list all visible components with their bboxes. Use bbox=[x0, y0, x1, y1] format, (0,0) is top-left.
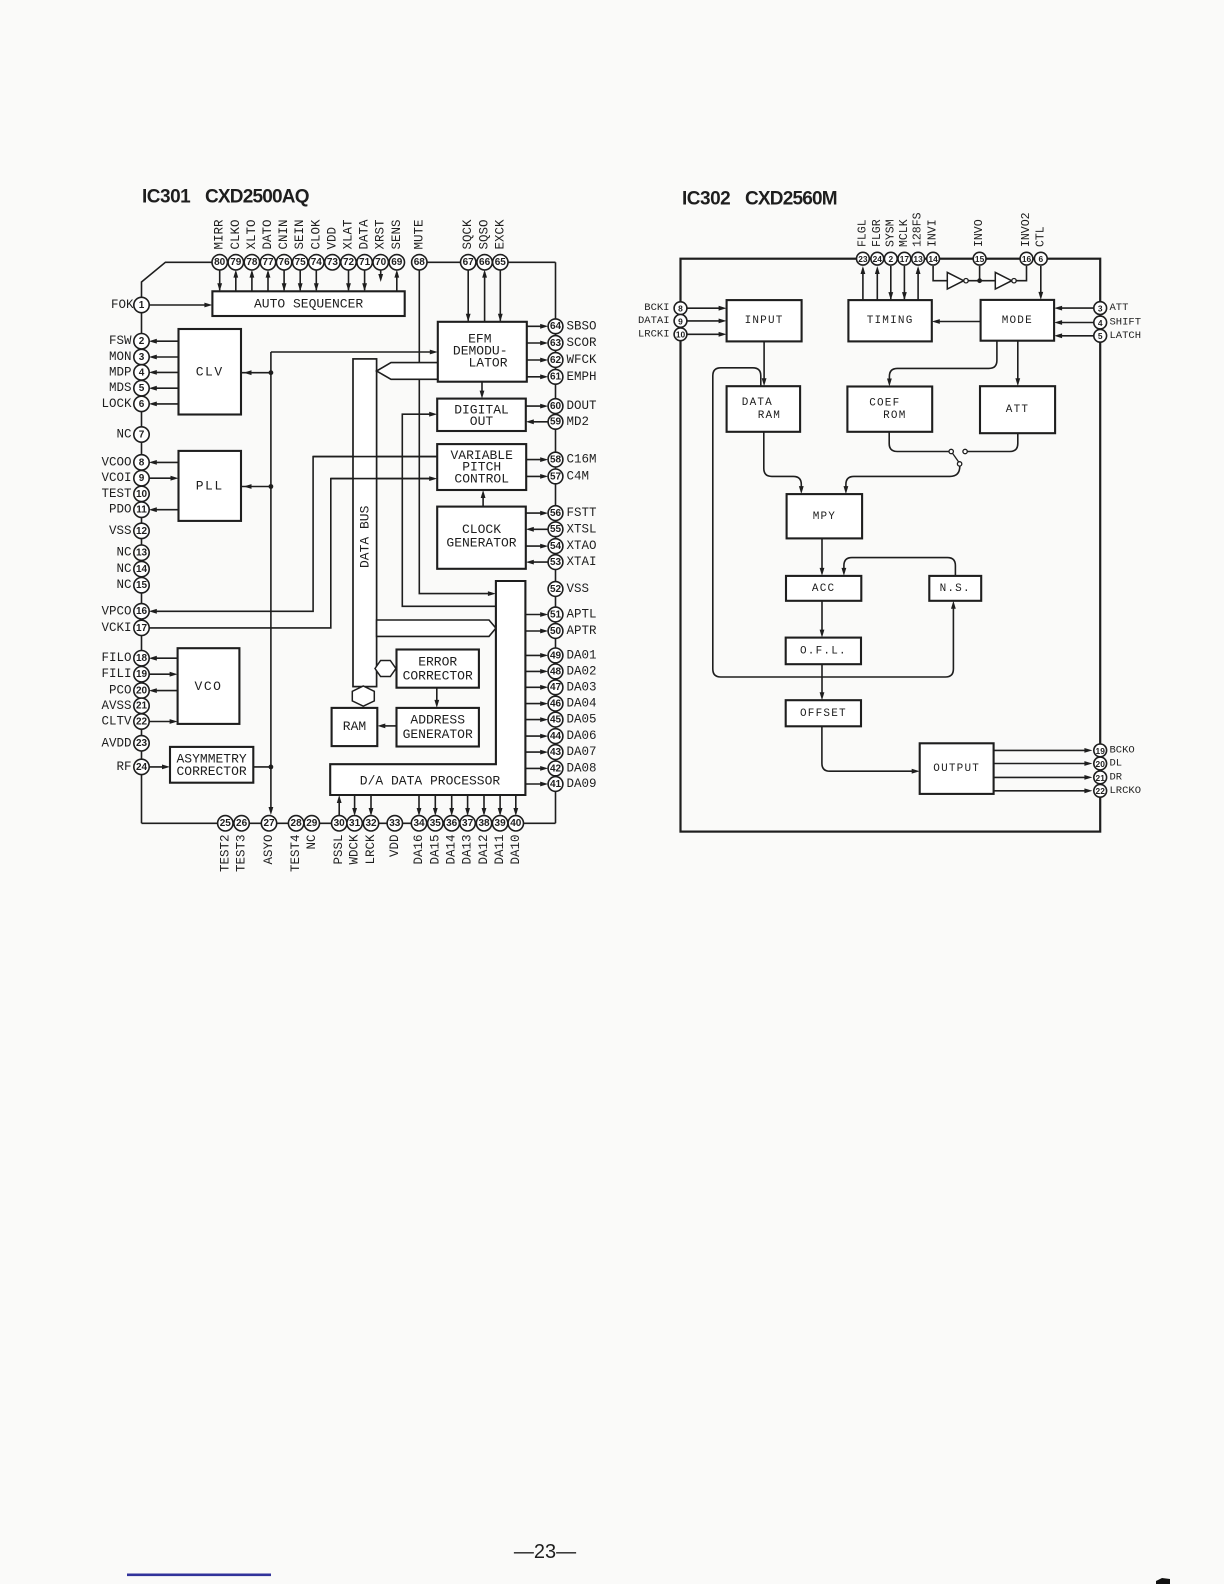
svg-text:CNIN: CNIN bbox=[277, 219, 291, 249]
pin 78 XLTO bbox=[244, 219, 259, 270]
block AUTO SEQUENCER bbox=[212, 291, 404, 316]
svg-text:FOK: FOK bbox=[111, 298, 134, 312]
pin 46 DA04 bbox=[548, 696, 596, 711]
wire output to pin 56 bbox=[526, 512, 544, 514]
svg-text:48: 48 bbox=[550, 666, 562, 677]
svg-text:74: 74 bbox=[311, 257, 323, 268]
pin 43 DA07 bbox=[548, 745, 596, 760]
svg-text:O.F.L.: O.F.L. bbox=[800, 645, 847, 657]
svg-text:MCLK: MCLK bbox=[898, 219, 911, 247]
svg-text:VSS: VSS bbox=[109, 524, 132, 538]
svg-text:MUTE: MUTE bbox=[412, 219, 426, 249]
pin 7 NC bbox=[116, 427, 149, 442]
svg-text:61: 61 bbox=[550, 372, 562, 383]
pin 22 LRCKO bbox=[1094, 784, 1141, 797]
wire pin80 to pin1 rail (top-left) bbox=[142, 262, 214, 300]
pin 5 LATCH bbox=[1094, 329, 1141, 342]
svg-text:XTAO: XTAO bbox=[567, 539, 597, 553]
svg-text:DATA: DATA bbox=[358, 219, 372, 250]
pin 56 FSTT bbox=[548, 506, 597, 521]
wire output to pin 41 bbox=[525, 783, 544, 785]
wire EFM demodulator to pin 66 bbox=[484, 272, 486, 322]
wire inverter U2 to pin 16 INVO2 bbox=[1016, 266, 1026, 281]
svg-text:ATT: ATT bbox=[1006, 404, 1029, 416]
pin 16 INVO2 bbox=[1020, 212, 1033, 265]
wire D/A data processor to bottom pin bbox=[418, 795, 420, 813]
wire D/A data processor to bottom pin bbox=[370, 795, 372, 813]
svg-text:8: 8 bbox=[139, 457, 145, 468]
svg-text:23: 23 bbox=[136, 738, 148, 749]
bus arrow EFM demodulator to DATA BUS bbox=[377, 363, 438, 380]
wire inverter U1 to inverter U2 bbox=[968, 280, 995, 282]
wire pin 53 input to block bbox=[530, 561, 548, 563]
wire pin 74 into AUTO SEQUENCER bbox=[315, 270, 317, 291]
wire output to pin 48 bbox=[525, 670, 544, 672]
svg-text:WFCK: WFCK bbox=[567, 353, 598, 367]
svg-text:28: 28 bbox=[291, 818, 303, 829]
wire CLOCK GENERATOR to VARIABLE PITCH CONTROL bbox=[482, 494, 484, 506]
svg-text:73: 73 bbox=[327, 257, 339, 268]
svg-text:MON: MON bbox=[109, 350, 132, 364]
wire output to pin 62 bbox=[527, 359, 544, 361]
wire ADDRESS GENERATOR to RAM bbox=[382, 725, 397, 727]
svg-text:FSTT: FSTT bbox=[567, 506, 598, 520]
block TIMING bbox=[848, 300, 931, 341]
svg-text:INVO2: INVO2 bbox=[1020, 212, 1033, 247]
svg-text:19: 19 bbox=[1096, 746, 1106, 756]
wire pin68 to pin67 bbox=[427, 261, 461, 263]
wire left pin into INPUT bbox=[687, 320, 722, 322]
svg-text:8: 8 bbox=[678, 304, 683, 314]
wire switch to MPY bbox=[846, 466, 960, 490]
pin 25 TEST2 bbox=[218, 816, 233, 872]
svg-text:ACC: ACC bbox=[812, 583, 835, 595]
wire output to pin 57 bbox=[526, 475, 544, 477]
svg-text:PLL: PLL bbox=[196, 479, 224, 494]
wire right pin into MODE bbox=[1059, 322, 1094, 324]
svg-text:21: 21 bbox=[136, 701, 148, 712]
svg-text:EXCK: EXCK bbox=[493, 219, 507, 250]
IC302 chip border bbox=[681, 259, 1101, 832]
svg-text:CONTROL: CONTROL bbox=[454, 472, 509, 487]
pin 37 DA13 bbox=[460, 816, 475, 865]
svg-text:LOCK: LOCK bbox=[101, 397, 132, 411]
pin 49 DA01 bbox=[548, 648, 596, 663]
pin 22 CLTV bbox=[101, 714, 149, 729]
pin 17 MCLK bbox=[898, 219, 911, 265]
wire D/A data processor to bottom pin bbox=[499, 795, 501, 813]
svg-text:7: 7 bbox=[139, 429, 145, 440]
svg-text:IC301: IC301 bbox=[142, 187, 191, 208]
pin 14 NC bbox=[116, 561, 149, 576]
svg-text:44: 44 bbox=[550, 731, 562, 742]
svg-text:APTR: APTR bbox=[567, 624, 598, 638]
wire OUTPUT to right pin bbox=[994, 763, 1089, 765]
svg-text:13: 13 bbox=[136, 548, 148, 559]
svg-text:INVI: INVI bbox=[927, 219, 940, 247]
svg-text:35: 35 bbox=[430, 818, 442, 829]
svg-text:18: 18 bbox=[136, 653, 148, 664]
svg-text:IC302: IC302 bbox=[682, 189, 730, 210]
svg-text:VDD: VDD bbox=[325, 227, 339, 250]
svg-text:DA01: DA01 bbox=[567, 648, 597, 662]
wire output to pin 54 bbox=[526, 545, 544, 547]
wire CLV output to left pin bbox=[153, 403, 179, 405]
svg-text:55: 55 bbox=[550, 524, 562, 535]
bus arrow DATA BUS to D/A channel bbox=[377, 620, 496, 636]
pin 6 CTL bbox=[1034, 226, 1047, 265]
svg-text:BCKO: BCKO bbox=[1110, 744, 1135, 756]
wire TIMING to pin 13 bbox=[917, 269, 919, 301]
svg-text:76: 76 bbox=[279, 257, 291, 268]
wire VARIABLE PITCH CONTROL output to pin 16 VPCO bbox=[153, 457, 438, 612]
svg-text:72: 72 bbox=[343, 257, 355, 268]
svg-text:SYSM: SYSM bbox=[884, 219, 897, 247]
wire output to pin 42 bbox=[525, 767, 544, 769]
pin 57 C4M bbox=[548, 469, 589, 484]
wire pin 14 INVI to inverter bbox=[933, 266, 947, 281]
pin 79 CLKO bbox=[228, 219, 243, 270]
wire pin 17 into TIMING bbox=[903, 266, 905, 299]
svg-text:CORRECTOR: CORRECTOR bbox=[403, 669, 473, 684]
block VCO bbox=[178, 648, 240, 724]
black scan mark bottom right bbox=[1156, 1578, 1170, 1584]
svg-text:FILO: FILO bbox=[101, 651, 131, 665]
pin 17 VCKI bbox=[101, 620, 149, 635]
svg-text:TEST: TEST bbox=[101, 487, 132, 501]
pin 45 DA05 bbox=[548, 712, 596, 727]
svg-text:SQCK: SQCK bbox=[461, 219, 475, 250]
svg-text:XTAI: XTAI bbox=[567, 555, 597, 569]
wire D/A data processor to bottom pin bbox=[467, 795, 469, 813]
pin 2 FSW bbox=[109, 334, 149, 349]
svg-text:DATA: DATA bbox=[742, 397, 773, 409]
svg-text:SHIFT: SHIFT bbox=[1110, 317, 1142, 329]
wire output to pin 63 bbox=[527, 342, 544, 344]
wire pin 68 MUTE down and into D/A channel bbox=[419, 270, 490, 594]
pin 52 VSS bbox=[548, 582, 589, 597]
pin 27 ASYO bbox=[261, 816, 276, 865]
svg-text:FILI: FILI bbox=[101, 667, 131, 681]
svg-text:DR: DR bbox=[1110, 771, 1123, 783]
switch contact B bbox=[963, 449, 967, 453]
svg-text:TEST3: TEST3 bbox=[235, 835, 249, 873]
wire right pin into MODE bbox=[1059, 335, 1094, 337]
svg-text:68: 68 bbox=[414, 257, 426, 268]
svg-text:LATCH: LATCH bbox=[1110, 330, 1142, 342]
svg-text:16: 16 bbox=[1022, 254, 1032, 264]
svg-text:49: 49 bbox=[550, 650, 562, 661]
wire OUTPUT to right pin bbox=[994, 776, 1089, 778]
svg-text:CXD2560M: CXD2560M bbox=[745, 189, 837, 210]
block COEF ROM bbox=[847, 387, 932, 432]
svg-text:COEF: COEF bbox=[869, 397, 900, 409]
wire output to pin 61 bbox=[527, 376, 544, 378]
svg-text:SBSO: SBSO bbox=[567, 319, 597, 333]
svg-text:29: 29 bbox=[306, 818, 318, 829]
pin 68 MUTE bbox=[412, 219, 427, 270]
wire pin 65 into EFM demodulator bbox=[499, 270, 501, 321]
wire pin 19 FILI to VCO bbox=[149, 673, 173, 675]
pin 16 VPCO bbox=[101, 604, 149, 619]
svg-text:—23—: —23— bbox=[514, 1541, 576, 1563]
junction dot PLL/rail bbox=[269, 484, 274, 489]
pin 53 XTAI bbox=[548, 555, 596, 570]
block PLL bbox=[179, 451, 242, 521]
pin 66 SQSO bbox=[477, 219, 492, 270]
wire OUTPUT to right pin bbox=[994, 749, 1089, 751]
svg-text:38: 38 bbox=[478, 818, 490, 829]
svg-text:80: 80 bbox=[214, 257, 226, 268]
wire CLV output to left pin bbox=[153, 371, 179, 373]
pin 1 FOK bbox=[111, 297, 149, 312]
svg-text:5: 5 bbox=[139, 383, 145, 394]
svg-text:XLTO: XLTO bbox=[245, 219, 259, 249]
wire right pin chain rail bbox=[555, 262, 557, 823]
svg-text:15: 15 bbox=[136, 580, 148, 591]
wire O.F.L. to OFFSET bbox=[821, 664, 823, 696]
svg-text:DA15: DA15 bbox=[428, 835, 442, 865]
svg-text:VSS: VSS bbox=[567, 582, 590, 596]
pin 19 BCKO bbox=[1094, 744, 1135, 757]
svg-text:62: 62 bbox=[550, 355, 562, 366]
pin 21 AVSS bbox=[101, 698, 149, 713]
pin 73 VDD bbox=[325, 227, 340, 270]
pin 13 128FS bbox=[912, 212, 925, 265]
svg-text:MODE: MODE bbox=[1002, 315, 1033, 327]
svg-text:FSW: FSW bbox=[109, 334, 132, 348]
svg-text:PCO: PCO bbox=[109, 684, 132, 698]
wire left pin into INPUT bbox=[687, 307, 722, 309]
svg-text:14: 14 bbox=[928, 254, 938, 264]
wire output to pin 43 bbox=[525, 751, 544, 753]
pin 12 VSS bbox=[109, 523, 149, 538]
svg-text:1: 1 bbox=[139, 300, 145, 311]
pin 4 SHIFT bbox=[1094, 316, 1141, 329]
wire pin65 to right rail bbox=[508, 261, 556, 263]
svg-text:MIRR: MIRR bbox=[213, 219, 227, 250]
wire junction up to pin 15 INVO bbox=[979, 266, 981, 281]
svg-text:VPCO: VPCO bbox=[101, 604, 131, 618]
svg-text:DATO: DATO bbox=[261, 219, 275, 249]
pin 23 AVDD bbox=[101, 736, 149, 751]
svg-text:LRCK: LRCK bbox=[364, 834, 378, 865]
svg-text:FLGR: FLGR bbox=[871, 219, 884, 247]
wire pin 22 CLTV to VCO bbox=[149, 721, 173, 723]
pin 14 INVI bbox=[927, 219, 940, 265]
pin 50 APTR bbox=[548, 624, 597, 639]
wire pin 59 input to block bbox=[530, 421, 548, 423]
svg-text:37: 37 bbox=[462, 818, 474, 829]
svg-text:GENERATOR: GENERATOR bbox=[446, 535, 516, 550]
svg-text:19: 19 bbox=[136, 669, 148, 680]
pin 39 DA11 bbox=[492, 816, 507, 865]
pin 76 CNIN bbox=[276, 219, 291, 270]
switch lever bbox=[953, 453, 959, 462]
svg-text:128FS: 128FS bbox=[912, 212, 925, 247]
svg-text:4: 4 bbox=[1098, 318, 1103, 328]
pin 58 C16M bbox=[548, 452, 596, 467]
block INPUT bbox=[727, 300, 802, 341]
wire left pin into INPUT bbox=[687, 333, 722, 335]
svg-text:APTL: APTL bbox=[567, 608, 597, 622]
svg-text:CXD2500AQ: CXD2500AQ bbox=[205, 187, 309, 208]
wire bottom pin row rail bbox=[142, 822, 556, 824]
pin 55 XTSL bbox=[548, 522, 596, 537]
pin 10 LRCKI bbox=[638, 328, 687, 341]
svg-text:SQSO: SQSO bbox=[478, 219, 492, 249]
wire pin 30 PSSL into D/A data processor bbox=[338, 800, 340, 817]
svg-text:GENERATOR: GENERATOR bbox=[403, 727, 473, 742]
pin 21 DR bbox=[1094, 771, 1123, 784]
wire left pin chain rail bbox=[141, 305, 143, 823]
svg-text:59: 59 bbox=[550, 417, 562, 428]
pin 11 PDO bbox=[109, 502, 149, 517]
inverter U2 bbox=[995, 272, 1016, 289]
svg-text:TEST4: TEST4 bbox=[289, 835, 303, 873]
svg-text:BCKI: BCKI bbox=[644, 302, 669, 314]
svg-text:SCOR: SCOR bbox=[567, 336, 598, 350]
wire pin 67 into EFM demodulator bbox=[467, 270, 469, 321]
svg-text:77: 77 bbox=[262, 257, 274, 268]
bus DATA BUS bbox=[353, 359, 377, 687]
wire pin 72 into AUTO SEQUENCER bbox=[348, 270, 350, 291]
svg-text:DA07: DA07 bbox=[567, 745, 597, 759]
svg-text:EMPH: EMPH bbox=[567, 370, 597, 384]
pin 8 VCOO bbox=[101, 455, 149, 470]
wire output to pin 51 bbox=[525, 614, 544, 616]
svg-text:31: 31 bbox=[349, 818, 361, 829]
pin 48 DA02 bbox=[548, 664, 596, 679]
svg-text:TIMING: TIMING bbox=[867, 315, 914, 327]
svg-text:VDD: VDD bbox=[388, 835, 402, 858]
svg-text:11: 11 bbox=[136, 505, 147, 516]
block N.S. bbox=[929, 576, 981, 601]
svg-text:MD2: MD2 bbox=[567, 415, 590, 429]
block MODE bbox=[981, 300, 1055, 341]
svg-text:SENS: SENS bbox=[390, 219, 404, 249]
svg-text:71: 71 bbox=[359, 257, 371, 268]
svg-text:ROM: ROM bbox=[883, 410, 906, 422]
svg-text:DATA BUS: DATA BUS bbox=[357, 505, 372, 568]
wire MPY to ACC bbox=[821, 538, 823, 571]
pin 10 TEST bbox=[101, 486, 149, 501]
svg-text:MDS: MDS bbox=[109, 381, 132, 395]
pin 20 PCO bbox=[109, 683, 149, 698]
svg-text:63: 63 bbox=[550, 338, 562, 349]
wire MODE to COEF ROM bbox=[889, 341, 997, 383]
svg-text:WDCK: WDCK bbox=[348, 834, 362, 865]
wire PLL input from rail bbox=[241, 486, 271, 488]
block DIGITAL OUT bbox=[437, 399, 526, 431]
block ACC bbox=[786, 576, 861, 601]
pin 26 TEST3 bbox=[234, 816, 249, 872]
svg-text:2: 2 bbox=[139, 336, 145, 347]
svg-text:DATAI: DATAI bbox=[638, 315, 670, 327]
pin 61 EMPH bbox=[548, 369, 596, 384]
svg-text:3: 3 bbox=[1098, 304, 1103, 314]
svg-text:40: 40 bbox=[510, 818, 522, 829]
svg-text:MDP: MDP bbox=[109, 365, 132, 379]
wire EFM DEMODULATOR to DIGITAL OUT bbox=[481, 382, 483, 395]
svg-text:CLKO: CLKO bbox=[229, 219, 243, 249]
block ERROR CORRECTOR bbox=[397, 650, 479, 688]
svg-text:INPUT: INPUT bbox=[745, 315, 784, 327]
svg-text:56: 56 bbox=[550, 508, 562, 519]
svg-text:DA11: DA11 bbox=[493, 835, 507, 865]
pin 6 LOCK bbox=[101, 396, 149, 411]
svg-text:FLGL: FLGL bbox=[856, 219, 869, 247]
svg-text:60: 60 bbox=[550, 401, 562, 412]
svg-text:AVDD: AVDD bbox=[101, 736, 131, 750]
wire output to pin 50 bbox=[525, 630, 544, 632]
pin 5 MDS bbox=[109, 381, 149, 396]
wire output to pin 64 bbox=[527, 325, 544, 327]
wire AUTO SEQUENCER to pin 77 bbox=[267, 272, 269, 291]
inverter U1 bbox=[947, 272, 968, 289]
svg-text:ASYO: ASYO bbox=[262, 835, 276, 865]
svg-text:43: 43 bbox=[550, 747, 562, 758]
svg-text:C4M: C4M bbox=[567, 469, 590, 483]
pin 31 WDCK bbox=[347, 816, 362, 865]
svg-text:OFFSET: OFFSET bbox=[800, 708, 847, 720]
svg-text:20: 20 bbox=[136, 686, 148, 697]
wire pin 9 VCOI to PLL bbox=[149, 477, 174, 479]
wire VCKI line crossing data bus bbox=[331, 478, 432, 480]
block OFFSET bbox=[786, 700, 861, 726]
pin 15 INVO bbox=[973, 219, 986, 265]
title IC302 CXD2560M bbox=[682, 189, 837, 210]
svg-text:D/A DATA PROCESSOR: D/A DATA PROCESSOR bbox=[360, 773, 501, 788]
svg-text:6: 6 bbox=[1038, 254, 1043, 264]
svg-text:INVO: INVO bbox=[973, 219, 986, 247]
wire TIMING to pin 23 bbox=[862, 269, 864, 301]
svg-text:VCKI: VCKI bbox=[101, 621, 131, 635]
svg-text:12: 12 bbox=[136, 526, 148, 537]
pin 75 SEIN bbox=[293, 219, 308, 270]
svg-text:DA09: DA09 bbox=[567, 777, 597, 791]
wire output to pin 45 bbox=[525, 719, 544, 721]
svg-text:XRST: XRST bbox=[374, 219, 388, 250]
pin 70 XRST bbox=[373, 219, 388, 270]
wire pin 6 CTL into MODE bbox=[1040, 266, 1042, 296]
svg-text:CLOK: CLOK bbox=[309, 219, 323, 250]
svg-text:RAM: RAM bbox=[758, 410, 781, 422]
svg-text:DA13: DA13 bbox=[461, 835, 475, 865]
pin 65 EXCK bbox=[493, 219, 508, 270]
wire pin 70 stub arrow (XRST) bbox=[380, 270, 382, 278]
svg-text:54: 54 bbox=[550, 541, 562, 552]
pin 28 TEST4 bbox=[288, 816, 303, 872]
hexagon DATA BUS to RAM bbox=[352, 686, 374, 706]
wire D/A data processor to bottom pin bbox=[434, 795, 436, 813]
svg-text:ERROR: ERROR bbox=[418, 655, 457, 670]
pin 74 CLOK bbox=[309, 219, 324, 270]
svg-text:22: 22 bbox=[1096, 786, 1106, 796]
pin 44 DA06 bbox=[548, 729, 596, 744]
pin 60 DOUT bbox=[548, 399, 597, 414]
svg-text:PDO: PDO bbox=[109, 503, 132, 517]
block VARIABLE PITCH CONTROL bbox=[437, 444, 526, 490]
svg-text:DA08: DA08 bbox=[567, 761, 597, 775]
svg-text:DA03: DA03 bbox=[567, 680, 597, 694]
wire ASYMMETRY CORRECTOR output to rail bbox=[253, 766, 271, 768]
pin 24 FLGR bbox=[871, 219, 884, 265]
svg-text:3: 3 bbox=[139, 352, 145, 363]
svg-text:SEIN: SEIN bbox=[293, 219, 307, 249]
pin 64 SBSO bbox=[548, 319, 596, 334]
svg-text:17: 17 bbox=[900, 254, 910, 264]
